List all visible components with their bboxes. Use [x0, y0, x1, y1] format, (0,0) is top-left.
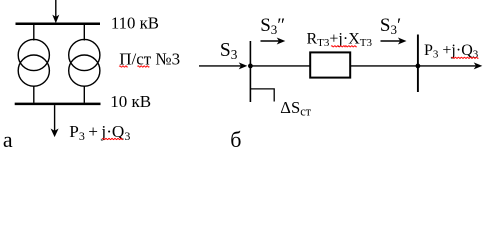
- spellcheck squiggle under ст: [138, 66, 150, 67]
- spellcheck squiggle under j·Q3: [102, 138, 123, 139]
- svg-text:б: б: [230, 127, 241, 152]
- wire: load branch to right with arrow: [417, 65, 476, 67]
- arrowhead: S3 into node: [239, 62, 248, 69]
- wire: incoming 110 kV feeder: [55, 0, 57, 17]
- arrowhead: load arrow: [51, 129, 59, 138]
- wire: T1 HV stub: [33, 25, 35, 41]
- wire: impedance box to right node: [350, 65, 417, 67]
- spellcheck squiggle under П: [119, 66, 127, 67]
- wire: S3 lead-in line: [199, 65, 241, 67]
- svg-text:110 кВ: 110 кВ: [111, 14, 159, 33]
- transformer T1: [18, 39, 49, 86]
- junction dot left: [248, 64, 253, 69]
- wire: node to impedance box: [250, 65, 310, 67]
- impedance box RT3+jXT3: [310, 52, 350, 77]
- arrow S3'' (flow into box): [261, 40, 280, 42]
- svg-text:P3 +j·Q3: P3 +j·Q3: [424, 42, 479, 61]
- wire: T1 LV stub: [33, 86, 35, 103]
- wire: T2 HV stub: [83, 25, 85, 41]
- svg-text:П/ст №3: П/ст №3: [119, 50, 180, 69]
- busbar 10 kV: [15, 103, 101, 106]
- wire: T2 LV stub: [83, 86, 85, 103]
- wire: no-load loss branch (L-shape): [250, 89, 274, 102]
- node: left bus tick: [249, 41, 251, 102]
- junction dot right: [416, 64, 421, 69]
- transformer T2: [69, 39, 100, 86]
- svg-text:P3 + j·Q3: P3 + j·Q3: [69, 122, 130, 143]
- svg-text:а: а: [3, 127, 13, 152]
- arrow S3' (flow out of box): [381, 40, 401, 42]
- wire: load feeder down: [54, 105, 56, 131]
- node: right bus tick: [417, 35, 419, 93]
- arrowhead: feeder into 110 kV bus: [52, 15, 59, 24]
- svg-text:10 кВ: 10 кВ: [110, 92, 151, 111]
- spellcheck squiggle under j·X: [331, 46, 356, 47]
- busbar 110 kV: [16, 22, 101, 25]
- spellcheck squiggle under j·Q3 right: [452, 57, 479, 58]
